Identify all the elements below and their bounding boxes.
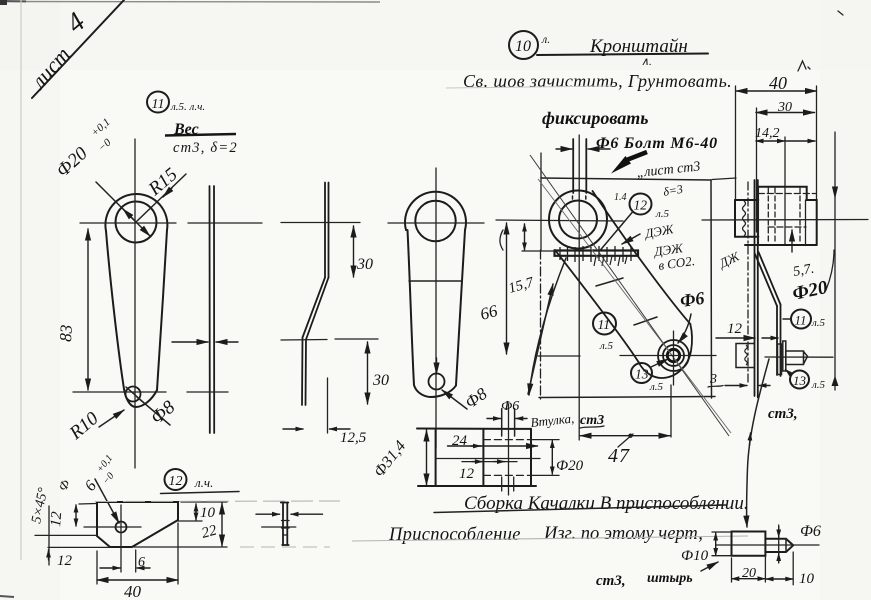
svg-text:40: 40 [769, 73, 787, 93]
upper straight part [324, 183, 326, 278]
dim 24 [448, 433, 538, 449]
dimension 30 upper [354, 226, 374, 277]
note "Вес" underlined [165, 121, 236, 138]
svg-text:Ф6: Ф6 [501, 399, 519, 414]
lever boss R15 outer [105, 194, 167, 231]
label 5x45 [29, 486, 51, 525]
dimension 30 lower [368, 342, 390, 404]
svg-text:л.5: л.5 [649, 381, 664, 393]
svg-text:11: 11 [598, 317, 611, 332]
note δ=3 [662, 182, 684, 199]
pin centerline [716, 544, 819, 546]
weld wavy line and label ДЖ [715, 201, 745, 272]
svg-text:л.5: л.5 [811, 317, 826, 329]
dim 12 horizontal plate12 [35, 506, 110, 569]
taper right edge [456, 230, 465, 385]
dim Ф20 bushing [531, 440, 584, 476]
svg-text:Св. шов зачистить, Грунтовать.: Св. шов зачистить, Грунтовать. [463, 71, 732, 91]
big black arrow [611, 152, 647, 174]
label Ф20 +0,1/-0 with leader [52, 116, 150, 236]
weld flange bar with hatching [522, 246, 638, 262]
label R10 with leader [65, 408, 124, 445]
dim 10 pin [766, 552, 815, 587]
construction diagonal 2 [538, 179, 731, 433]
dimension Ф31,4 [371, 430, 427, 485]
paper top border line [0, 0, 380, 5]
VIEW 11 side: flat plate [172, 186, 262, 433]
label Ф8 with leader [442, 384, 491, 413]
plate 12 hole [84, 505, 141, 572]
lever taper left edge [106, 231, 124, 389]
svg-text:20: 20 [742, 566, 756, 581]
dimension 12 right [716, 321, 778, 338]
dimension 14,2 [755, 126, 815, 244]
dim 40 plate12 [97, 523, 178, 600]
assembly big hole [559, 201, 597, 239]
svg-text:л.5: л.5 [655, 208, 670, 220]
horizontal centerline [496, 220, 623, 221]
svg-text:ст3: ст3 [580, 413, 604, 428]
lever in assembly: upper edge [593, 191, 691, 324]
note Втулка [530, 410, 575, 429]
lever bend tick [596, 278, 623, 286]
svg-text:ст3, δ=2: ст3, δ=2 [173, 140, 238, 156]
svg-text:30: 30 [777, 100, 792, 115]
centerline upper [281, 222, 360, 224]
pivot centerlines [538, 331, 833, 385]
svg-text:12: 12 [57, 553, 73, 569]
block 12 side view in right view [736, 344, 754, 368]
dim 20 pin [732, 556, 766, 582]
dim 22 plate12 [134, 502, 227, 547]
svg-text:30: 30 [372, 372, 389, 389]
label Ф20 right [791, 250, 834, 305]
svg-text:Изг. по этому черт,: Изг. по этому черт, [543, 524, 703, 544]
svg-text:10: 10 [515, 38, 531, 55]
svg-text:12: 12 [727, 321, 743, 337]
bottom round end [414, 385, 456, 397]
dimension 12,5 [283, 378, 367, 446]
taper left edge [408, 230, 415, 385]
lever small hole Ф8 [126, 387, 141, 402]
svg-text:14,2: 14,2 [755, 126, 780, 141]
hole Ф20 [415, 201, 455, 241]
dim 12 vertical plate12 [48, 504, 96, 528]
label Ф8 with leader [126, 387, 180, 429]
svg-text:л.: л. [541, 32, 550, 46]
plate top edge link line [712, 178, 736, 180]
note ст3 штырь [596, 562, 718, 589]
dimension 83 [56, 229, 88, 390]
svg-text:Ф10: Ф10 [681, 548, 709, 564]
svg-text:Ф6: Ф6 [679, 288, 706, 311]
bushing Ф6 hole [502, 409, 515, 492]
note ДЭЖ в СО2 [651, 240, 695, 273]
pivot bolt circles [658, 340, 689, 371]
bolt Ф6 dim arrows [556, 148, 610, 150]
svg-text:12: 12 [169, 474, 183, 489]
construction diagonal [530, 155, 729, 436]
balloon 13 assembly with leader [631, 359, 668, 393]
dimension 15,7 [500, 224, 536, 297]
vertical centerline [435, 168, 437, 448]
small hole Ф8 [429, 374, 445, 390]
bolt shank lines [573, 135, 587, 440]
centerline arrow at small hole [436, 358, 438, 374]
SENTENCE Сборка [434, 493, 749, 514]
lever big hole Ф20 [116, 202, 157, 243]
plate 12 outline [97, 502, 178, 547]
svg-text:40: 40 [124, 582, 142, 600]
dimension 40 [736, 73, 817, 199]
svg-text:3: 3 [709, 372, 717, 387]
dim Ф6 pin [779, 523, 821, 563]
svg-text:ст3,: ст3, [596, 573, 626, 589]
lower straight part [301, 338, 304, 406]
svg-text:24: 24 [452, 433, 468, 449]
balloon 12 with leader [600, 192, 670, 251]
centerline lower [281, 339, 327, 342]
paper left margin line [20, 0, 22, 560]
note "л.5. л.ч." [170, 101, 205, 113]
right dim vertical with arrows [832, 132, 839, 390]
bottom line [187, 391, 228, 393]
horizontal centerline small hole [73, 391, 166, 393]
svg-text:11: 11 [795, 313, 807, 328]
label R15 with leader [136, 164, 186, 222]
bushing hole hidden lines [483, 439, 531, 441]
svg-text:47: 47 [608, 445, 630, 467]
bolt head side view [778, 341, 808, 375]
plate left hidden edge (dash-dot) [540, 250, 542, 399]
label Ф6 pivot with leader [678, 288, 706, 343]
note Ф6 Болт М6-40 [596, 135, 718, 152]
svg-text:11: 11 [152, 97, 165, 112]
lever taper right edge [157, 230, 167, 390]
weld hatch on lever edge [594, 256, 627, 266]
horizontal centerline top hole [80, 222, 176, 224]
svg-text:10: 10 [200, 505, 216, 521]
svg-text:л.5. л.ч.: л.5. л.ч. [170, 101, 205, 113]
note фиксировать [542, 108, 648, 128]
SENTENCE Приспособление [352, 524, 748, 545]
centerline right view [702, 219, 868, 222]
balloon 10 [509, 31, 550, 59]
svg-text:Приспособление: Приспособление [388, 525, 521, 545]
svg-text:фиксировать: фиксировать [542, 108, 648, 128]
leader arrow up [528, 284, 553, 394]
mounting plate outline [539, 153, 715, 398]
note "ст3, δ=2" [173, 140, 238, 156]
balloon 12 detail [161, 469, 240, 494]
svg-text:штырь: штырь [647, 571, 693, 586]
note ст3 assembly [580, 413, 604, 428]
lever small end arc [639, 324, 692, 378]
small check mark top right [798, 11, 843, 71]
svg-text:∧.: ∧. [641, 56, 652, 68]
svg-text:12: 12 [48, 511, 65, 528]
label 6 +0,1/-0 with leader [55, 453, 119, 523]
svg-text:Ф20: Ф20 [556, 458, 584, 474]
svg-text:Ф6 Болт М6-40: Ф6 Болт М6-40 [596, 135, 718, 152]
bend line [409, 280, 462, 282]
VIEW 11 bent side view [281, 183, 378, 406]
svg-text:л.ч.: л.ч. [194, 475, 213, 490]
note ДЭЖ with leader [622, 221, 676, 244]
centerline [188, 222, 262, 224]
svg-text:10: 10 [799, 571, 815, 587]
channel hidden lines [767, 188, 769, 244]
thickness dim arrows [172, 341, 208, 343]
dimension 47 [580, 385, 671, 467]
svg-text:12,5: 12,5 [340, 430, 367, 446]
dim Ф10 pin [681, 532, 733, 564]
title "Кронштейн" underlined [537, 36, 708, 68]
svg-text:13: 13 [793, 373, 807, 388]
sheet corner diagonal [32, 0, 124, 98]
svg-text:1.4: 1.4 [614, 192, 627, 203]
bushing centerline [436, 458, 540, 460]
right view main plate edge-on [748, 180, 758, 398]
balloon 11 right [783, 310, 826, 330]
balloon 13 right [786, 370, 826, 392]
svg-text:ст3,: ст3, [768, 406, 798, 422]
outer boss [405, 192, 466, 230]
dimension 3 right [708, 372, 770, 387]
bushing body [417, 404, 540, 495]
balloon 11 assembly [593, 313, 616, 353]
channel section outline [735, 187, 817, 245]
svg-text:83: 83 [56, 324, 76, 342]
faint rule at plate top [95, 501, 340, 547]
vertical centerline [134, 139, 136, 468]
dim 6 bottom plate12 [100, 550, 150, 572]
svg-text:12: 12 [459, 466, 475, 482]
dimension 30 [756, 100, 815, 232]
horizontal centerline [388, 222, 484, 224]
lever bottom round end R10 [124, 389, 157, 407]
svg-text:6: 6 [138, 555, 145, 570]
svg-text:л.5: л.5 [811, 379, 826, 391]
note "лист ст3" [636, 159, 701, 181]
dim 12 bushing [459, 462, 517, 482]
svg-text:Ф6: Ф6 [800, 523, 821, 540]
sheet label "лист 4" [25, 7, 92, 95]
dim Ф6 bushing [487, 399, 527, 419]
lever in assembly: lower edge [555, 191, 692, 378]
dim 10 plate12 [178, 504, 216, 521]
curved leader arrow down [529, 258, 566, 395]
svg-text:30: 30 [356, 256, 373, 273]
S-curve leader ст3 [747, 359, 798, 527]
bend diagonal [303, 278, 326, 338]
note weld seam sentence [446, 71, 732, 91]
dimension 66 [478, 223, 506, 354]
bottom left corner mark [0, 596, 14, 597]
VIEW 11 front: lever outline [73, 139, 176, 468]
svg-text:13: 13 [635, 367, 649, 382]
balloon 11 [147, 92, 169, 113]
plate edge lines [209, 186, 211, 433]
VIEW 11 front second (bent lever) [388, 168, 484, 448]
lever edge-on in right view [755, 252, 781, 376]
PLATE 12 SIDE VIEW [256, 503, 323, 546]
svg-text:л.5: л.5 [599, 340, 614, 352]
dim 5,7 [792, 230, 815, 280]
pin body [716, 532, 819, 556]
assembly big boss outer [496, 191, 623, 249]
svg-text:12: 12 [634, 198, 648, 213]
